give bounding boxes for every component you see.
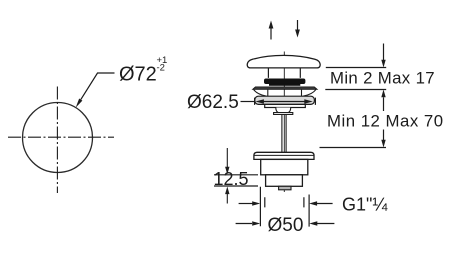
svg-text:Ø50: Ø50 — [268, 215, 304, 236]
svg-text:Min 12 Max 70: Min 12 Max 70 — [327, 111, 444, 130]
svg-text:-2: -2 — [157, 62, 165, 73]
svg-text:Ø72: Ø72 — [119, 64, 157, 86]
svg-text:Min 2 Max 17: Min 2 Max 17 — [330, 68, 435, 87]
svg-text:12.5: 12.5 — [214, 169, 249, 189]
svg-text:Ø62.5: Ø62.5 — [187, 92, 239, 113]
svg-text:G1"¼: G1"¼ — [342, 195, 388, 215]
